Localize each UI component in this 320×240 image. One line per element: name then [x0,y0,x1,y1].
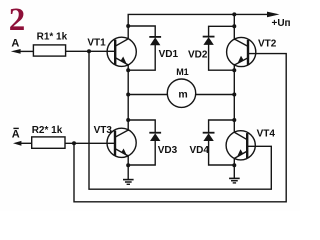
svg-text:VT2: VT2 [258,38,277,49]
wire VT2 emitter to motor node [233,65,235,95]
svg-text:A: A [12,129,20,141]
wire VT1 emitter to motor node [127,65,129,95]
wire VD4 bottom branch [209,141,235,165]
junction node motor right [232,93,236,97]
svg-text:R1* 1k: R1* 1k [37,31,68,42]
wire VT4 emitter to ground [233,158,235,178]
junction node VT3 emitter [126,163,130,167]
wire VD3 bottom branch [128,141,155,165]
svg-text:VD3: VD3 [158,145,178,156]
wire VD2 bottom branch [209,45,235,71]
wire motor left [128,94,167,96]
wire cross-coupling inner A to VT4 base [89,51,271,189]
power arrow +Un [267,12,280,18]
junction node VT1 emitter [126,68,130,72]
overline of nA [13,127,18,129]
ground below VT3 [124,180,133,185]
junction node R1-VT1 base [87,49,91,53]
wire top rail +Un [128,14,267,37]
junction node VD3 top [126,118,130,122]
svg-text:R2* 1k: R2* 1k [32,125,63,136]
junction node VD1 top [126,24,130,28]
transistor VT2 [227,37,256,66]
wire input A to VT1 base [20,50,34,52]
motor M1 [167,79,195,107]
svg-text:VD1: VD1 [159,49,179,60]
junction node rail VT2 [232,12,236,16]
junction node VT2 emitter [232,68,236,72]
input arrow nA [13,141,21,146]
wire VT3 collector [127,95,129,131]
wire cross-coupling outer nA to VT2 base [74,54,286,202]
input arrow A [11,49,21,54]
svg-text:m: m [178,88,187,100]
wire VD2 top branch [209,26,235,36]
wire motor right [196,94,235,96]
svg-text:VD2: VD2 [188,49,208,60]
diode VD1 [150,37,160,45]
diode VD2 [203,37,213,45]
resistor R2 [32,137,65,148]
wire VT3 emitter to ground [127,156,129,180]
diode VD4 [203,133,213,141]
wire VD3 top branch [128,120,155,133]
ground below VT4 [230,178,239,183]
transistor VT4 [226,131,255,160]
svg-text:2: 2 [9,2,26,38]
junction node R2-VT3 base [72,141,76,145]
svg-text:VD4: VD4 [190,145,210,156]
wire VD1 bottom branch [128,45,155,70]
junction node VT4 emitter [232,163,236,167]
svg-text:VT4: VT4 [257,128,276,139]
svg-text:M1: M1 [176,67,189,77]
resistor R1 [33,45,65,56]
svg-text:A: A [11,37,19,49]
svg-text:VT3: VT3 [94,125,113,136]
wire VT2 collector [233,14,235,39]
svg-text:+Uп: +Uп [272,18,291,29]
junction node VD2 top [232,24,236,28]
transistor VT3 [107,128,136,157]
junction node motor left [126,93,130,97]
svg-text:VT1: VT1 [87,37,106,48]
junction node VD4 top [232,118,236,122]
wire VD1 top branch [128,26,155,37]
transistor VT1 [107,37,136,66]
wire VD4 top branch [209,120,235,133]
diode VD3 [150,133,160,141]
wire input nA to VT3 base [21,142,32,144]
wire VT4 collector [233,95,235,133]
